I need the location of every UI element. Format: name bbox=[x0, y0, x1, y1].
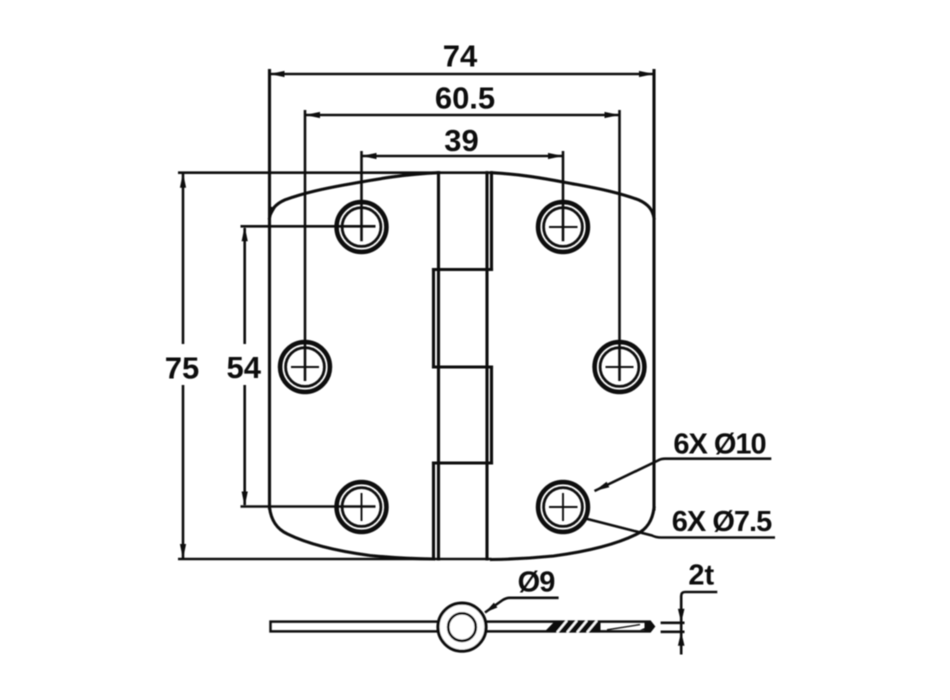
crosshair bottom-right hole horizontal bbox=[549, 506, 578, 508]
knuckle joint line 1 bbox=[434, 268, 492, 271]
svg-text:2t: 2t bbox=[688, 560, 714, 592]
side view bar end cap bbox=[645, 622, 652, 631]
dimension line 75 upper segment bbox=[182, 174, 185, 344]
knuckle pin left line bbox=[437, 173, 440, 559]
side view left leaf bar bbox=[271, 622, 439, 632]
54 bottom extension line through bottom-left hole bbox=[241, 505, 376, 508]
svg-text:6X Ø7.5: 6X Ø7.5 bbox=[672, 506, 772, 538]
dimension line 54 lower segment bbox=[243, 385, 246, 505]
knuckle barrel right line segment 3 bbox=[490, 367, 493, 463]
crosshair top-right hole bbox=[549, 226, 578, 228]
screw hole middle-left outer circle bbox=[280, 342, 330, 392]
hinge right edge + 74 extension bbox=[652, 71, 655, 510]
knuckle barrel left line segment 4 bbox=[432, 463, 435, 559]
39 left extension line through top-left hole bbox=[360, 151, 363, 241]
hinge leaf top-left edge bbox=[270, 173, 439, 218]
dimension line 39 bbox=[362, 155, 564, 158]
screw hole middle-left inner circle bbox=[286, 348, 325, 387]
2t shelf line bbox=[681, 592, 717, 655]
screw hole middle-right outer circle bbox=[595, 342, 645, 392]
svg-text:Ø9: Ø9 bbox=[518, 567, 556, 599]
leader line 6XO7.5 bbox=[586, 519, 776, 538]
knuckle joint line 2 bbox=[434, 365, 492, 368]
crosshair bottom-left hole bbox=[361, 493, 363, 521]
crosshair middle-right hole bbox=[606, 366, 634, 368]
2t bottom tick bbox=[661, 630, 685, 633]
crosshair bottom-right hole vertical bbox=[562, 493, 564, 521]
screw hole bottom-left inner circle bbox=[342, 488, 381, 527]
75 top extension line / knuckle top edge bbox=[178, 171, 492, 174]
dimension line 74 bbox=[270, 73, 655, 76]
60.5 left extension line through middle-left hole bbox=[304, 110, 307, 381]
screw hole top-left inner circle bbox=[342, 208, 381, 247]
corner arrow artifact top-left bbox=[270, 206, 276, 218]
side view end wedge bbox=[640, 624, 653, 630]
svg-text:39: 39 bbox=[444, 123, 478, 158]
side view thin section line bbox=[607, 625, 640, 630]
svg-text:54: 54 bbox=[226, 350, 261, 385]
dimension line 54 upper segment bbox=[243, 228, 246, 344]
dimension line 60.5 bbox=[305, 114, 620, 117]
39 right extension line through top-right hole bbox=[562, 151, 565, 241]
screw hole top-left outer circle bbox=[337, 202, 387, 252]
knuckle pin right line bbox=[485, 173, 488, 559]
svg-text:6X Ø10: 6X Ø10 bbox=[673, 429, 765, 461]
screw hole bottom-right inner circle bbox=[544, 488, 583, 527]
screw hole top-right inner circle bbox=[544, 208, 583, 247]
hinge leaf top-right edge bbox=[492, 173, 655, 218]
screw hole bottom-left outer circle bbox=[337, 482, 387, 532]
hinge left edge + 74 extension bbox=[268, 71, 271, 509]
side view pin hole circle bbox=[448, 613, 476, 641]
svg-text:60.5: 60.5 bbox=[435, 81, 495, 116]
2t top tick bbox=[661, 621, 685, 624]
knuckle barrel right line segment 1 bbox=[490, 173, 493, 270]
side view right leaf bar top edge bbox=[486, 622, 654, 632]
60.5 right extension line through middle-right hole bbox=[618, 110, 621, 381]
leader line 6XO10 bbox=[595, 459, 772, 491]
hinge leaf bottom-left edge bbox=[270, 508, 434, 560]
side view knuckle barrel circle bbox=[438, 603, 486, 651]
screw hole top-right outer circle bbox=[538, 202, 588, 252]
knuckle joint line 3 bbox=[434, 461, 492, 464]
svg-text:74: 74 bbox=[443, 39, 478, 74]
svg-text:75: 75 bbox=[165, 351, 199, 386]
crosshair middle-left hole bbox=[291, 366, 319, 368]
screw hole bottom-right outer circle bbox=[538, 482, 588, 532]
dimension line 75 lower segment bbox=[182, 385, 185, 558]
leader line O9 bbox=[485, 598, 559, 613]
knuckle barrel left line segment 2 bbox=[432, 270, 435, 368]
side view hatch block bbox=[545, 621, 601, 633]
75 bottom extension line / knuckle bottom edge bbox=[178, 558, 492, 561]
54 top extension line through top-left hole bbox=[241, 225, 376, 228]
hinge leaf bottom-right edge bbox=[492, 508, 655, 560]
screw hole middle-right inner circle bbox=[600, 348, 639, 387]
